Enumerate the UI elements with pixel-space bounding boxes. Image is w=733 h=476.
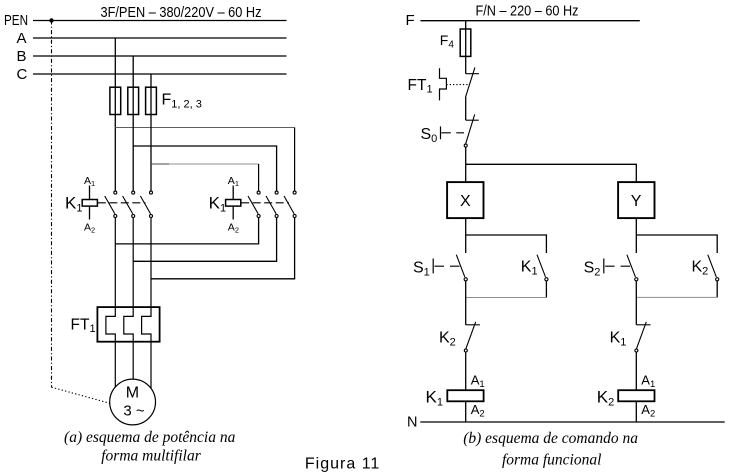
pushbutton S2 actuator bar [603,259,605,274]
svg-text:(a) esquema de potência na: (a) esquema de potência na [64,429,236,446]
contactor K1 right coil stub A1 [232,186,234,200]
fuse F3 [146,87,157,114]
wire phase C cross to right pole 1 [151,163,259,165]
wire X to loop [465,218,467,235]
contact S1 blade [456,255,465,277]
contactor K1 left pole 1 contact [105,191,117,217]
svg-text:PEN: PEN [4,12,28,29]
pushbutton S0 blade [466,114,475,143]
contactor K1 left pole 2 contact [123,191,135,217]
contact K1 hold moving contact circle [545,278,548,281]
svg-text:A1: A1 [228,175,239,188]
wire right pole 2 return to phase 2 [133,218,276,262]
contactor K1 right pole 1 contact [248,191,260,217]
wire K2 coil to N [635,401,637,422]
wire Y loop bottom [636,296,717,298]
wire PEN dotted link to motor [52,387,110,403]
motor M1 circle [110,379,156,425]
svg-text:F4: F4 [440,32,455,51]
contact K2 interlock moving circle [464,349,467,352]
svg-text:A1: A1 [641,373,655,391]
wire F drop to FT1 contact [465,21,467,74]
wire S0 to X box [465,147,467,182]
svg-text:Figura 11: Figura 11 [305,456,380,473]
coil K1 box [447,390,483,401]
FT1 trip actuator hook [440,68,447,100]
contact S1 fixed terminal [465,235,467,253]
wire Y to loop [635,218,637,235]
svg-text:3F/PEN – 380/220V – 60 Hz: 3F/PEN – 380/220V – 60 Hz [101,5,262,21]
svg-text:A1: A1 [84,175,95,188]
svg-text:S1: S1 [413,260,430,279]
wire phase B drop [132,56,134,191]
wire PEN bus [33,20,287,22]
contactor K1 right pole 3 contact [284,191,296,217]
wire phase A drop [114,38,116,191]
svg-text:K1: K1 [521,258,538,277]
wire pole 1 through FT1 heater to motor [106,218,115,387]
fuse F1 [110,87,121,114]
wire X loop bottom [466,297,547,299]
wire pole 3 through FT1 heater to motor [142,218,151,389]
contact S1 moving contact circle [464,278,467,281]
contact K1 hold blade [537,255,546,277]
wire phase C drop [150,74,152,191]
svg-text:Y: Y [631,193,642,210]
wire pole 2 through FT1 heater to motor [124,218,133,380]
contact K1 interlock moving circle [635,349,638,352]
svg-text:A2: A2 [84,222,95,235]
wire branch node to Y [466,164,637,182]
svg-text:F1, 2, 3: F1, 2, 3 [162,92,202,111]
contactor K1 right pole 2 contact [266,191,278,217]
svg-text:forma funcional: forma funcional [502,452,601,469]
wire phase B cross to right pole 2 [133,146,276,191]
pushbutton S2 actuator dashed link [605,265,634,267]
svg-text:A1: A1 [471,373,485,391]
wire X loop top [466,235,547,253]
pushbutton S0 moving contact circle [464,144,467,147]
svg-text:F/N – 220 – 60 Hz: F/N – 220 – 60 Hz [476,4,579,20]
contact K2 interlock fixed bar [466,324,480,326]
contact S2 fixed terminal [635,235,637,253]
svg-text:FT1: FT1 [408,77,433,96]
svg-text:K2: K2 [597,387,614,408]
contactor K1 left mechanical link [98,202,146,204]
contact FT1 blade [466,67,475,96]
wire K2 hold to loop bottom [716,281,718,297]
pushbutton S0 actuator dashed link [441,132,464,134]
junction PEN tap [49,18,53,22]
contact S2 blade [627,255,636,277]
wire F bus [420,20,639,22]
svg-text:K1: K1 [65,194,82,215]
svg-text:K1: K1 [426,387,443,408]
svg-text:K2: K2 [439,329,456,348]
svg-text:S2: S2 [584,260,601,279]
svg-text:FT1: FT1 [71,317,96,336]
wire K2 contact to K1 coil [465,352,467,390]
svg-text:A2: A2 [228,222,239,235]
wire Y loop top [636,235,717,253]
wire S2 to K1 contact [635,281,637,325]
thermal relay FT1 box [97,307,159,342]
contact S2 moving contact circle [635,278,638,281]
wire right pole 1 return to phase 1 [115,218,258,244]
contact K2 hold moving contact circle [716,278,719,281]
wire K1 coil to N [465,401,467,422]
svg-text:X: X [460,193,471,210]
wire FT1 to S0 [465,97,467,121]
pushbutton S1 actuator bar [432,259,434,274]
svg-text:K1: K1 [610,329,627,348]
wire A bus [33,37,287,39]
contact K2 interlock blade [466,322,476,349]
svg-text:S0: S0 [421,126,438,145]
contactor K1 right coil box [226,200,241,207]
svg-text:K2: K2 [692,258,709,277]
svg-text:B: B [17,48,27,65]
pushbutton S0 actuator bar [440,126,442,139]
svg-text:N: N [407,415,417,431]
FT1 trip dotted link [446,84,467,86]
wire right pole 3 return to phase 3 [151,218,295,279]
contactor K1 left pole 3 contact [140,191,152,217]
coil K2 box [618,390,654,401]
svg-text:C: C [17,66,28,83]
contact K1 interlock fixed bar [636,324,650,326]
wire phase A cross to right pole 3 [115,127,294,129]
svg-text:A: A [17,30,27,47]
wire N bus [420,421,724,423]
fuse F4 [460,29,471,56]
pushbutton S1 actuator dashed link [435,265,464,267]
contactor K1 left coil stub A2 [89,206,91,219]
contactor K1 left coil box [82,200,97,207]
pushbutton S0 fixed bar [466,119,479,121]
wire B bus [33,55,287,57]
contact K1 interlock blade [636,322,646,349]
contactor K1 right mechanical link [241,202,289,204]
svg-text:M: M [126,385,139,402]
contact K2 hold blade [708,255,717,277]
contact FT1 fixed bar [466,73,479,75]
wire PEN dash-dot drop [51,21,53,388]
svg-text:forma multifilar: forma multifilar [101,448,201,465]
svg-text:F: F [406,12,415,29]
wire S1 to K2 contact [465,281,467,325]
wire K1 contact to K2 coil [635,352,637,390]
box Y [618,182,654,218]
fuse F2 [128,87,139,114]
wire K1 hold to loop bottom [545,281,547,298]
wire C bus [33,73,287,75]
svg-text:(b) esquema de comando na: (b) esquema de comando na [463,430,638,447]
box X [447,182,483,218]
svg-text:A2: A2 [471,402,485,420]
svg-text:K1: K1 [209,194,226,215]
svg-text:3 ~: 3 ~ [123,403,145,420]
contactor K1 left coil stub A1 [89,186,91,200]
contactor K1 right coil stub A2 [232,206,234,219]
svg-text:A2: A2 [641,402,655,420]
